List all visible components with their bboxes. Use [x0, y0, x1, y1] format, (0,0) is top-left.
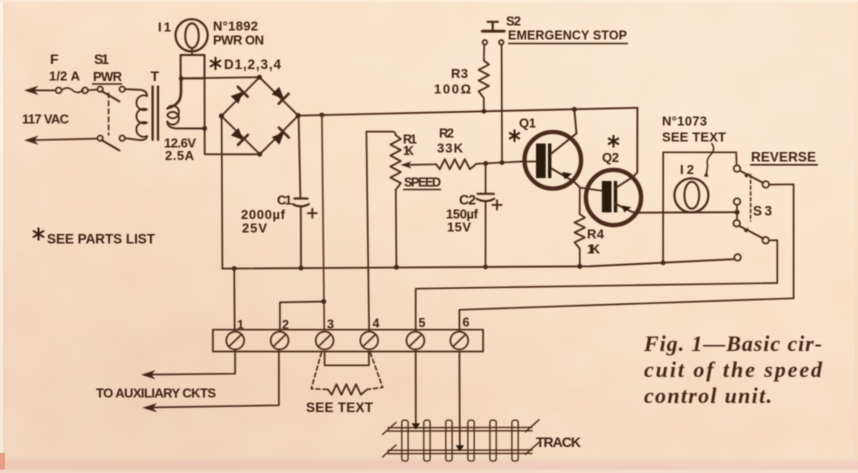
svg-text:C1: C1 — [277, 193, 292, 208]
svg-text:25V: 25V — [242, 221, 267, 236]
svg-text:S1: S1 — [94, 51, 109, 67]
svg-text:SPEED: SPEED — [404, 176, 441, 190]
svg-text:R2: R2 — [439, 126, 454, 141]
svg-text:1/2 A: 1/2 A — [49, 69, 81, 84]
svg-text:2: 2 — [282, 318, 289, 332]
svg-text:R3: R3 — [451, 66, 468, 81]
svg-text:SEE TEXT: SEE TEXT — [306, 400, 374, 415]
svg-text:Q2: Q2 — [602, 150, 619, 165]
svg-text:2.5A: 2.5A — [165, 148, 195, 163]
svg-text:100Ω: 100Ω — [434, 82, 471, 97]
svg-text:I2: I2 — [680, 162, 694, 177]
svg-text:117 VAC: 117 VAC — [22, 112, 70, 127]
svg-text:4: 4 — [373, 317, 380, 331]
svg-text:1: 1 — [237, 318, 244, 332]
svg-text:5: 5 — [419, 316, 426, 330]
svg-text:cuit of the speed: cuit of the speed — [644, 357, 823, 382]
svg-text:Fig. 1—Basic cir-: Fig. 1—Basic cir- — [643, 331, 822, 356]
svg-text:TRACK: TRACK — [536, 434, 581, 450]
svg-text:PWR: PWR — [93, 69, 123, 84]
svg-text:I1: I1 — [158, 20, 171, 35]
svg-text:F: F — [50, 51, 59, 67]
svg-text:33K: 33K — [437, 141, 464, 156]
svg-text:control unit.: control unit. — [644, 383, 772, 408]
svg-text:6: 6 — [463, 316, 470, 330]
svg-text:Q1: Q1 — [519, 116, 536, 131]
svg-text:N°1892: N°1892 — [213, 19, 258, 34]
svg-text:SEE TEXT: SEE TEXT — [662, 130, 726, 145]
svg-text:S2: S2 — [506, 14, 521, 29]
svg-text:T: T — [151, 68, 160, 84]
svg-text:N°1073: N°1073 — [662, 114, 707, 129]
svg-text:1K: 1K — [403, 144, 414, 158]
svg-text:TO AUXILIARY CKTS: TO AUXILIARY CKTS — [96, 386, 216, 401]
svg-text:EMERGENCY STOP: EMERGENCY STOP — [508, 29, 627, 43]
svg-text:C2: C2 — [459, 192, 476, 208]
svg-text:R4: R4 — [587, 227, 605, 242]
svg-text:PWR ON: PWR ON — [213, 33, 264, 48]
svg-text:15V: 15V — [447, 220, 471, 235]
svg-text:1K: 1K — [587, 242, 601, 257]
svg-text:SEE PARTS LIST: SEE PARTS LIST — [47, 232, 156, 247]
svg-text:D1,2,3,4: D1,2,3,4 — [224, 57, 281, 72]
svg-text:REVERSE: REVERSE — [751, 150, 816, 165]
svg-text:3: 3 — [327, 318, 334, 332]
